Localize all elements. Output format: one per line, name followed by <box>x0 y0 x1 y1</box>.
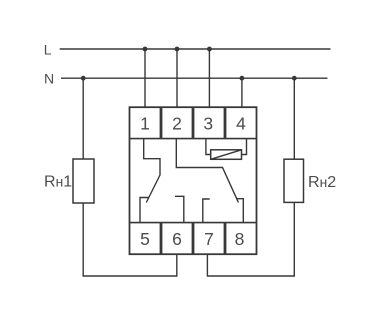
svg-text:N: N <box>44 71 54 87</box>
junction node N-RH1 <box>81 76 86 81</box>
junction node L-1 <box>143 47 148 52</box>
coil lead pin 3 <box>206 139 211 155</box>
terminal 4 label <box>236 113 246 133</box>
svg-text:6: 6 <box>172 229 182 249</box>
svg-text:3: 3 <box>203 113 213 133</box>
terminal divider 7-8 <box>224 223 227 255</box>
svg-text:8: 8 <box>235 229 245 249</box>
terminal divider 2-3 <box>192 107 195 138</box>
terminal 8 label <box>235 229 245 249</box>
svg-text:1: 1 <box>140 113 150 133</box>
fixed contact terminal 5 <box>140 198 149 223</box>
wire N to load RH1 <box>82 78 84 159</box>
junction node N-4 <box>240 76 245 81</box>
svg-text:4: 4 <box>236 113 246 133</box>
net N label <box>44 71 54 87</box>
junction node L-2 <box>175 47 180 52</box>
wire L to terminal 3 <box>208 49 210 107</box>
svg-text:Rн2: Rн2 <box>308 174 336 191</box>
net L wire <box>60 48 331 50</box>
contact armature pole 2 from terminal 2 <box>176 139 238 203</box>
svg-text:7: 7 <box>204 229 214 249</box>
wire RH2 to terminal 7 <box>207 202 294 276</box>
wire L to terminal 2 <box>176 49 178 107</box>
terminal row separator bottom <box>130 222 257 224</box>
fixed contact terminal 7 <box>203 199 210 223</box>
terminal 7 label <box>204 229 214 249</box>
junction node N-RH2 <box>292 76 297 81</box>
terminal 6 label <box>172 229 182 249</box>
junction node L-3 <box>207 47 212 52</box>
terminal divider 3-4 <box>224 107 227 138</box>
net N wire <box>61 77 328 79</box>
load RH2 label <box>308 174 336 191</box>
load RH1 label <box>44 174 72 191</box>
wire RH1 to terminal 6 <box>83 203 177 276</box>
net L label <box>44 42 52 58</box>
svg-text:Rн1: Rн1 <box>44 174 72 191</box>
wire N to load RH2 <box>293 78 295 159</box>
terminal 5 label <box>140 229 150 249</box>
relay coil <box>211 150 242 160</box>
svg-text:2: 2 <box>172 113 182 133</box>
contact armature pole 1 from terminal 1 <box>144 139 160 203</box>
wire L to terminal 1 <box>144 49 146 107</box>
terminal 1 label <box>140 113 150 133</box>
terminal 3 label <box>203 113 213 133</box>
wire N to terminal 4 <box>241 78 243 107</box>
svg-text:5: 5 <box>140 229 150 249</box>
terminal 2 label <box>172 113 182 133</box>
terminal divider 6-7 <box>192 223 195 255</box>
fixed contact terminal 6 <box>175 196 184 222</box>
relay module outline <box>130 107 257 254</box>
fixed contact terminal 8 <box>236 199 243 223</box>
terminal divider 5-6 <box>160 223 163 255</box>
terminal row separator top <box>130 138 257 140</box>
coil lead pin 4 <box>242 139 247 155</box>
load RH2 resistor <box>284 159 304 202</box>
terminal divider 1-2 <box>160 107 163 138</box>
svg-text:L: L <box>44 42 52 58</box>
load RH1 resistor <box>73 159 94 203</box>
